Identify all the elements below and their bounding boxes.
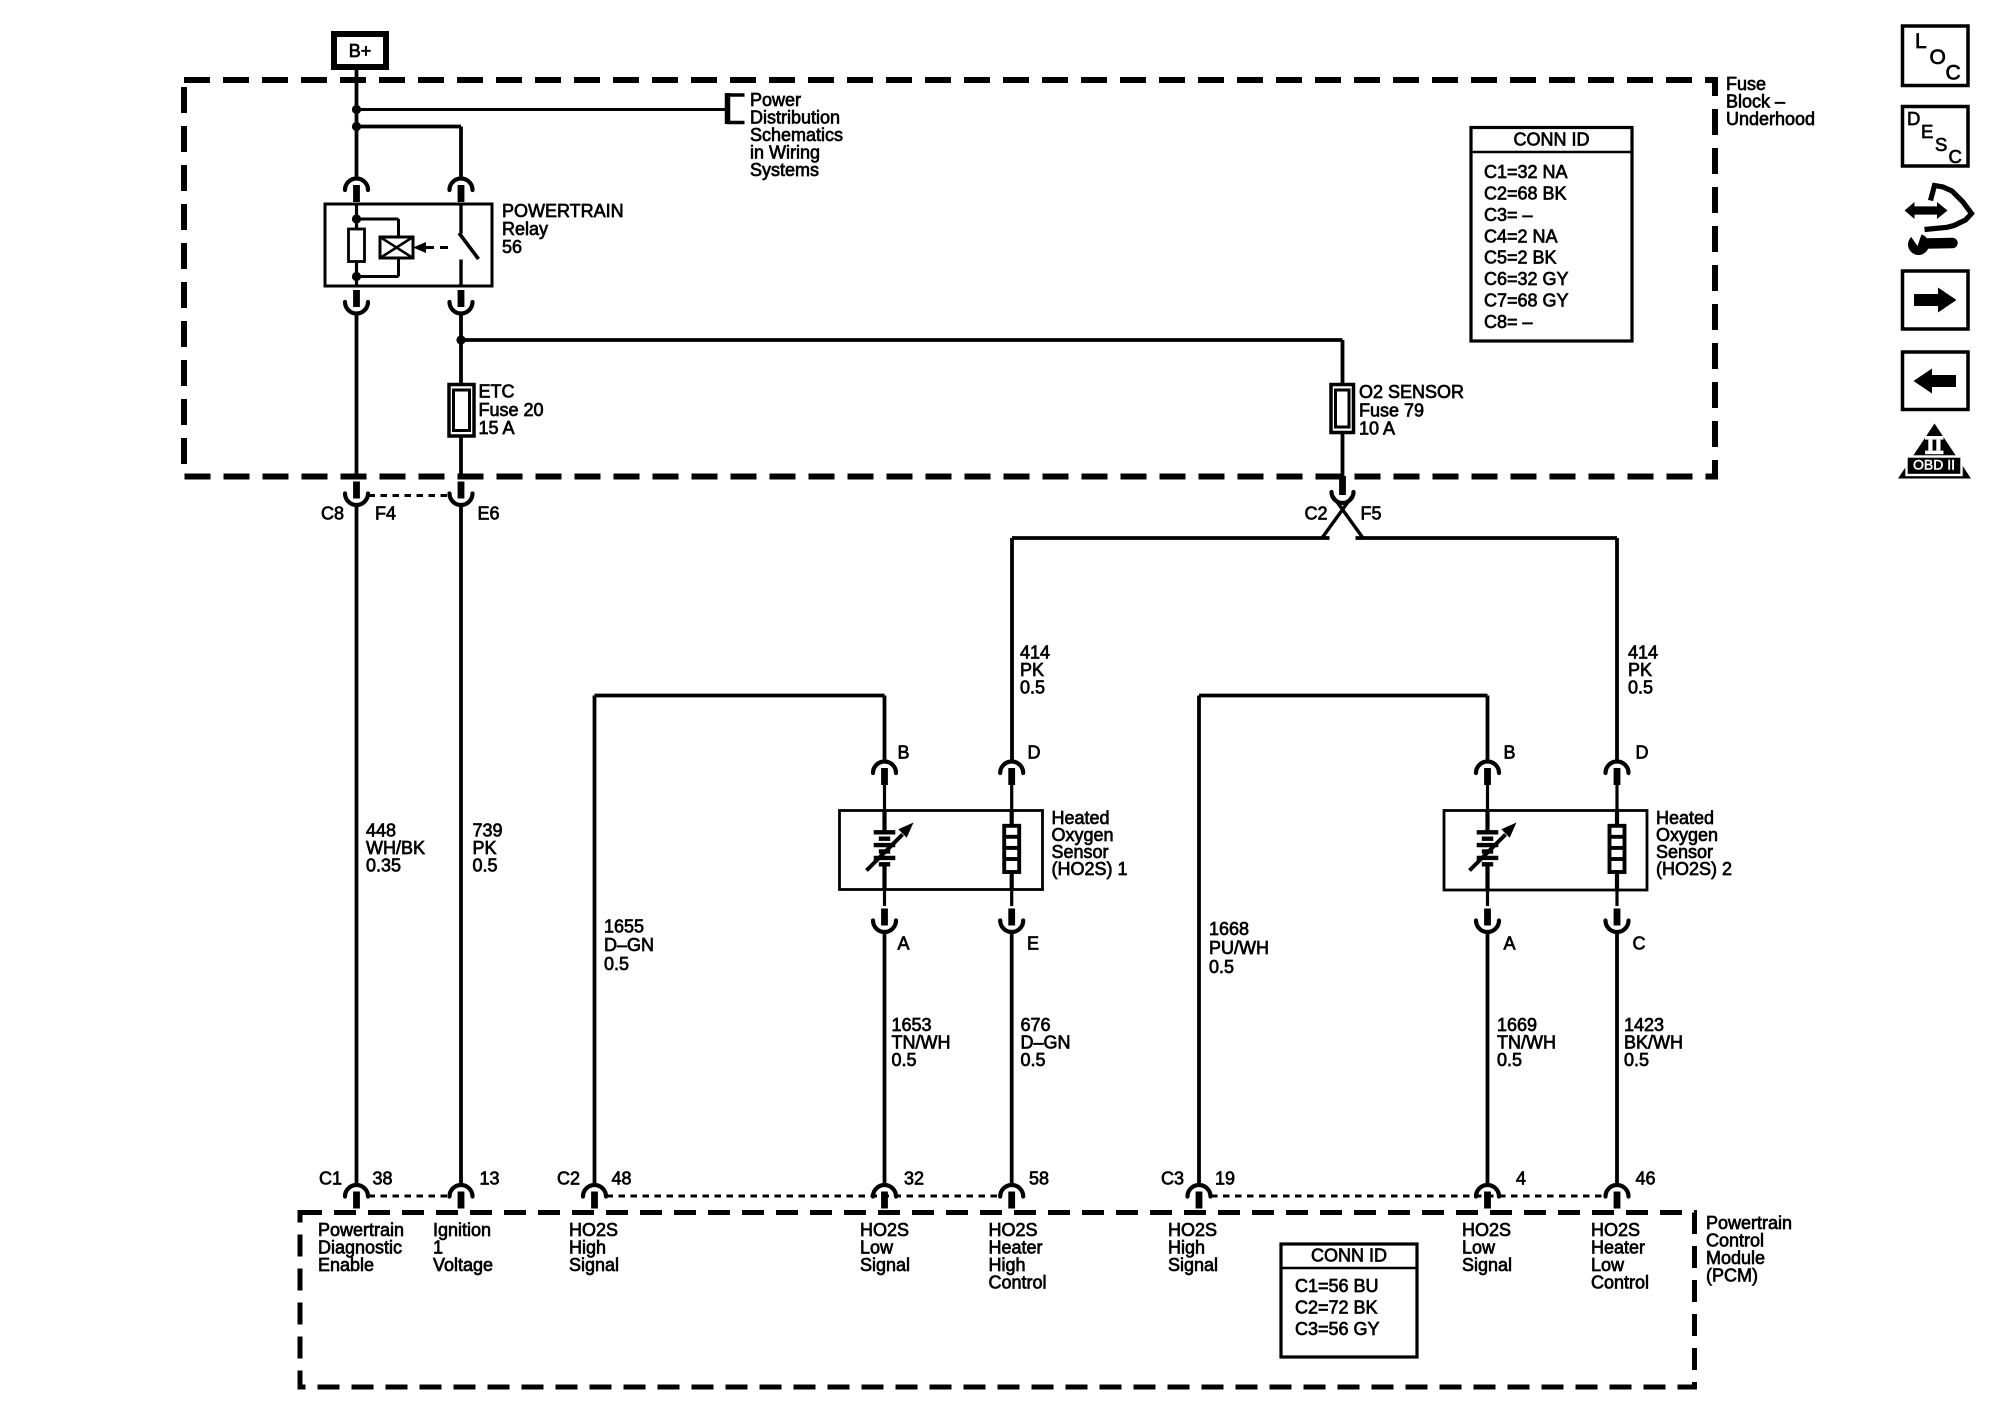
label POWERTRAIN Relay 56	[502, 201, 624, 257]
label pin C sensor 2	[1633, 934, 1646, 954]
wire switched feed to O2 sensor fuse	[461, 340, 1343, 385]
svg-text:Signal: Signal	[569, 1255, 619, 1275]
svg-text:O2 SENSOR: O2 SENSOR	[1359, 382, 1464, 402]
label F5	[1361, 504, 1382, 524]
svg-text:PU/WH: PU/WH	[1209, 938, 1269, 958]
label circuit 1423 BK/WH 0.5	[1624, 1015, 1683, 1070]
label 38	[373, 1169, 393, 1189]
wire HO2S1 high signal loop	[595, 696, 885, 1184]
relay switch-side top connector	[450, 179, 473, 202]
PCM connector pin 48	[583, 1185, 606, 1209]
svg-text:O: O	[1930, 46, 1946, 69]
connector C2 F5 with crossover	[1322, 476, 1363, 538]
svg-text:C8: C8	[321, 503, 344, 523]
svg-text:0.5: 0.5	[1624, 1050, 1649, 1070]
label pin D sensor 2	[1636, 743, 1649, 763]
label 32	[904, 1169, 924, 1189]
svg-text:4: 4	[1516, 1169, 1526, 1189]
PCM connector C2 dashed link	[607, 1195, 1001, 1198]
label Powertrain Diagnostic Enable	[318, 1220, 404, 1275]
svg-text:10 A: 10 A	[1359, 419, 1395, 439]
heater element HO2S 1	[1004, 811, 1019, 890]
reference bracket	[727, 93, 745, 124]
svg-text:C2: C2	[557, 1169, 580, 1189]
label 46	[1636, 1169, 1656, 1189]
table CONN ID PCM	[1281, 1244, 1417, 1357]
wire relay switched output down	[459, 316, 463, 385]
label F4	[375, 503, 396, 523]
label circuit 1653 TN/WH 0.5	[892, 1015, 951, 1070]
svg-text:Control: Control	[1591, 1273, 1649, 1293]
svg-text:0.35: 0.35	[366, 856, 401, 876]
wire branch to relay switch pin	[357, 127, 462, 177]
label Heated Oxygen Sensor (HO2S) 1	[1052, 808, 1128, 879]
PCM connector pin 4	[1476, 1185, 1499, 1209]
svg-text:0.5: 0.5	[604, 954, 629, 974]
label 48	[612, 1169, 632, 1189]
wire ETC fuse to E6 exit	[459, 436, 463, 476]
label circuit 739 PK 0.5	[473, 821, 503, 876]
svg-text:C2: C2	[1305, 504, 1328, 524]
label C8	[321, 503, 344, 523]
PCM connector C3 dashed link	[1211, 1195, 1605, 1198]
power node B+	[334, 34, 386, 67]
svg-text:15 A: 15 A	[479, 418, 515, 438]
svg-text:0.5: 0.5	[1628, 678, 1653, 698]
svg-text:C6=32 GY: C6=32 GY	[1484, 269, 1569, 289]
PCM connector pin 13	[450, 1185, 473, 1209]
label circuit 414 PK 0.5 left	[1020, 643, 1050, 698]
svg-text:C2=72 BK: C2=72 BK	[1295, 1298, 1378, 1318]
label C2	[1305, 504, 1328, 524]
svg-text:B: B	[898, 743, 910, 763]
connector pin D sensor 2	[1606, 762, 1629, 811]
svg-text:0.5: 0.5	[1020, 678, 1045, 698]
svg-text:1668: 1668	[1209, 919, 1249, 939]
svg-text:A: A	[1504, 934, 1516, 954]
connector pin C sensor 2	[1606, 890, 1629, 932]
svg-text:C1: C1	[319, 1169, 342, 1189]
svg-text:13: 13	[480, 1169, 500, 1189]
wire C8 to PCM pin 38	[355, 507, 359, 1183]
relay coil-side top connector	[345, 179, 368, 202]
svg-text:0.5: 0.5	[473, 856, 498, 876]
connector C8 F4	[345, 482, 449, 506]
svg-text:D: D	[1907, 108, 1920, 129]
svg-text:C: C	[1633, 934, 1646, 954]
svg-text:48: 48	[612, 1169, 632, 1189]
svg-text:C3: C3	[1161, 1169, 1184, 1189]
svg-text:C: C	[1946, 61, 1961, 84]
svg-text:B+: B+	[349, 41, 372, 61]
svg-text:32: 32	[904, 1169, 924, 1189]
label circuit 676 D-GN 0.5	[1021, 1015, 1071, 1070]
svg-text:19: 19	[1215, 1169, 1235, 1189]
heated oxygen sensor HO2S 2 body	[1444, 811, 1647, 891]
svg-text:D–GN: D–GN	[604, 935, 654, 955]
label Fuse Block - Underhood	[1726, 74, 1815, 129]
svg-text:S: S	[1935, 134, 1947, 155]
svg-text:OBD II: OBD II	[1913, 457, 1955, 473]
wire sensor2 C to PCM pin 46	[1615, 934, 1619, 1183]
label pin E sensor 1	[1027, 934, 1039, 954]
svg-text:(HO2S) 1: (HO2S) 1	[1052, 859, 1128, 879]
relay coil circuit	[352, 204, 399, 286]
svg-text:ETC: ETC	[479, 382, 515, 402]
svg-text:E6: E6	[478, 503, 500, 523]
relay coil-side bottom connector	[345, 290, 368, 314]
wire relay output to C8 exit	[355, 316, 359, 477]
svg-text:C5=2 BK: C5=2 BK	[1484, 248, 1557, 268]
PCM connector C1 dashed link	[369, 1195, 450, 1198]
PCM connector pin 19	[1188, 1185, 1211, 1209]
connector pin A sensor 2	[1476, 890, 1499, 932]
table CONN ID fuse block	[1471, 128, 1632, 342]
wire B+ feed down to relay pin	[355, 67, 359, 177]
heated oxygen sensor HO2S 1 body	[840, 811, 1043, 890]
svg-text:E: E	[1027, 934, 1039, 954]
connector pin B sensor 2	[1476, 762, 1499, 811]
svg-text:C4=2 NA: C4=2 NA	[1484, 226, 1558, 246]
svg-text:C8= –: C8= –	[1484, 312, 1533, 332]
label pin B sensor 2	[1504, 743, 1516, 763]
label 19	[1215, 1169, 1235, 1189]
icon LOC	[1903, 26, 1969, 86]
connector pin B sensor 1	[873, 762, 896, 811]
icon back arrow	[1903, 352, 1969, 410]
svg-text:56: 56	[502, 237, 522, 257]
powertrain control module dashed boundary	[300, 1213, 1695, 1388]
svg-text:C: C	[1949, 146, 1962, 167]
svg-text:Control: Control	[989, 1273, 1047, 1293]
svg-text:38: 38	[373, 1169, 393, 1189]
label C1	[319, 1169, 342, 1189]
svg-text:58: 58	[1029, 1169, 1049, 1189]
svg-text:L: L	[1915, 30, 1927, 53]
label HO2S Heater High Control	[989, 1220, 1047, 1293]
fuse O2 SENSOR Fuse 79 10A	[1331, 385, 1354, 433]
svg-text:Systems: Systems	[750, 160, 819, 180]
connector E6	[450, 482, 473, 506]
svg-text:Relay: Relay	[502, 219, 548, 239]
svg-text:Underhood: Underhood	[1726, 109, 1815, 129]
wire 414 PK bus	[1012, 538, 1617, 760]
svg-text:A: A	[898, 934, 910, 954]
label pin D sensor 1	[1028, 743, 1041, 763]
label ETC Fuse 20 15 A	[479, 382, 544, 439]
label C2 pcm	[557, 1169, 580, 1189]
svg-text:D: D	[1028, 743, 1041, 763]
label Ignition 1 Voltage	[433, 1220, 493, 1275]
heater element HO2S 2	[1610, 811, 1625, 891]
icon OBD II triangle	[1898, 424, 1971, 479]
wire HO2S2 high signal loop	[1199, 696, 1488, 1184]
sensor element HO2S 1	[867, 811, 914, 890]
svg-text:CONN ID: CONN ID	[1311, 1246, 1387, 1266]
svg-text:0.5: 0.5	[1021, 1050, 1046, 1070]
icon forward arrow	[1903, 271, 1969, 329]
junction switched feed split	[456, 335, 465, 344]
svg-text:0.5: 0.5	[1497, 1050, 1522, 1070]
svg-text:C1=56 BU: C1=56 BU	[1295, 1276, 1379, 1296]
label HO2S High Signal 2	[1168, 1220, 1218, 1275]
fuse ETC Fuse 20 15A	[449, 385, 474, 437]
wire O2 fuse to C2 exit	[1341, 433, 1345, 477]
label circuit 1655 D-GN 0.5	[604, 917, 654, 975]
label C3 pcm	[1161, 1169, 1184, 1189]
label circuit 448 WH/BK 0.35	[366, 821, 425, 876]
relay coil winding	[349, 229, 365, 262]
label pin A sensor 2	[1504, 934, 1516, 954]
junction to relay switch branch	[352, 122, 361, 131]
label 13	[480, 1169, 500, 1189]
junction on B+ feed	[352, 105, 361, 114]
wire E6 to PCM pin 13	[459, 507, 463, 1183]
label 4	[1516, 1169, 1526, 1189]
svg-text:Signal: Signal	[860, 1255, 910, 1275]
label HO2S Low Signal 1	[860, 1220, 910, 1275]
fuse block underhood dashed boundary	[184, 80, 1715, 477]
label circuit 1669 TN/WH 0.5	[1497, 1015, 1556, 1070]
PCM connector pin 38	[345, 1185, 368, 1209]
wire to power distribution reference	[357, 108, 728, 111]
label HO2S High Signal 1	[569, 1220, 619, 1275]
svg-text:F5: F5	[1361, 504, 1382, 524]
note Power Distribution Schematics in Wiring Systems	[750, 90, 843, 180]
icon DESC	[1903, 107, 1969, 168]
svg-text:(PCM): (PCM)	[1706, 1266, 1758, 1286]
connector pin E sensor 1	[1000, 890, 1023, 933]
svg-text:POWERTRAIN: POWERTRAIN	[502, 201, 624, 221]
svg-text:F4: F4	[375, 503, 396, 523]
svg-text:46: 46	[1636, 1169, 1656, 1189]
svg-text:(HO2S) 2: (HO2S) 2	[1656, 859, 1732, 879]
PCM connector pin 46	[1606, 1185, 1629, 1209]
wire sensor1 A to PCM pin 32	[883, 934, 887, 1183]
label circuit 414 PK 0.5 right	[1628, 643, 1658, 698]
relay solenoid crossed box with actuator arrow	[380, 237, 453, 258]
relay switch-side bottom connector	[450, 290, 473, 314]
svg-text:C7=68 GY: C7=68 GY	[1484, 291, 1569, 311]
sensor element HO2S 2	[1470, 811, 1517, 890]
svg-text:CONN ID: CONN ID	[1514, 130, 1590, 150]
label HO2S Low Signal 2	[1462, 1220, 1512, 1275]
svg-text:Fuse 79: Fuse 79	[1359, 401, 1424, 421]
svg-text:Enable: Enable	[318, 1255, 374, 1275]
powertrain relay 56 body	[325, 204, 492, 286]
svg-text:C2=68 BK: C2=68 BK	[1484, 184, 1567, 204]
connector pin A sensor 1	[873, 890, 896, 933]
label circuit 1668 PU/WH 0.5	[1209, 919, 1269, 977]
label Powertrain Control Module PCM	[1706, 1213, 1792, 1286]
wire sensor1 E to PCM pin 58	[1010, 934, 1014, 1183]
svg-text:E: E	[1921, 121, 1933, 142]
svg-text:C3= –: C3= –	[1484, 205, 1533, 225]
connector pin D sensor 1	[1000, 762, 1023, 811]
label E6	[478, 503, 500, 523]
PCM connector pin 58	[1000, 1185, 1023, 1209]
label O2 SENSOR Fuse 79 10 A	[1359, 382, 1464, 439]
label pin B sensor 1	[898, 743, 910, 763]
svg-text:0.5: 0.5	[1209, 957, 1234, 977]
svg-text:0.5: 0.5	[892, 1050, 917, 1070]
relay switch blade	[459, 204, 479, 286]
wire sensor2 A to PCM pin 4	[1486, 934, 1490, 1183]
svg-text:C3=56 GY: C3=56 GY	[1295, 1319, 1380, 1339]
svg-text:Fuse 20: Fuse 20	[479, 400, 544, 420]
PCM connector pin 32	[873, 1185, 896, 1209]
svg-text:B: B	[1504, 743, 1516, 763]
svg-text:1655: 1655	[604, 917, 644, 937]
svg-text:Signal: Signal	[1462, 1255, 1512, 1275]
svg-text:Signal: Signal	[1168, 1255, 1218, 1275]
svg-text:C1=32 NA: C1=32 NA	[1484, 162, 1568, 182]
label Heated Oxygen Sensor (HO2S) 2	[1656, 808, 1732, 879]
label 58	[1029, 1169, 1049, 1189]
label pin A sensor 1	[898, 934, 910, 954]
svg-text:Voltage: Voltage	[433, 1255, 493, 1275]
icon wrench with arrows	[1905, 186, 1972, 256]
label HO2S Heater Low Control	[1591, 1220, 1649, 1293]
svg-text:D: D	[1636, 743, 1649, 763]
